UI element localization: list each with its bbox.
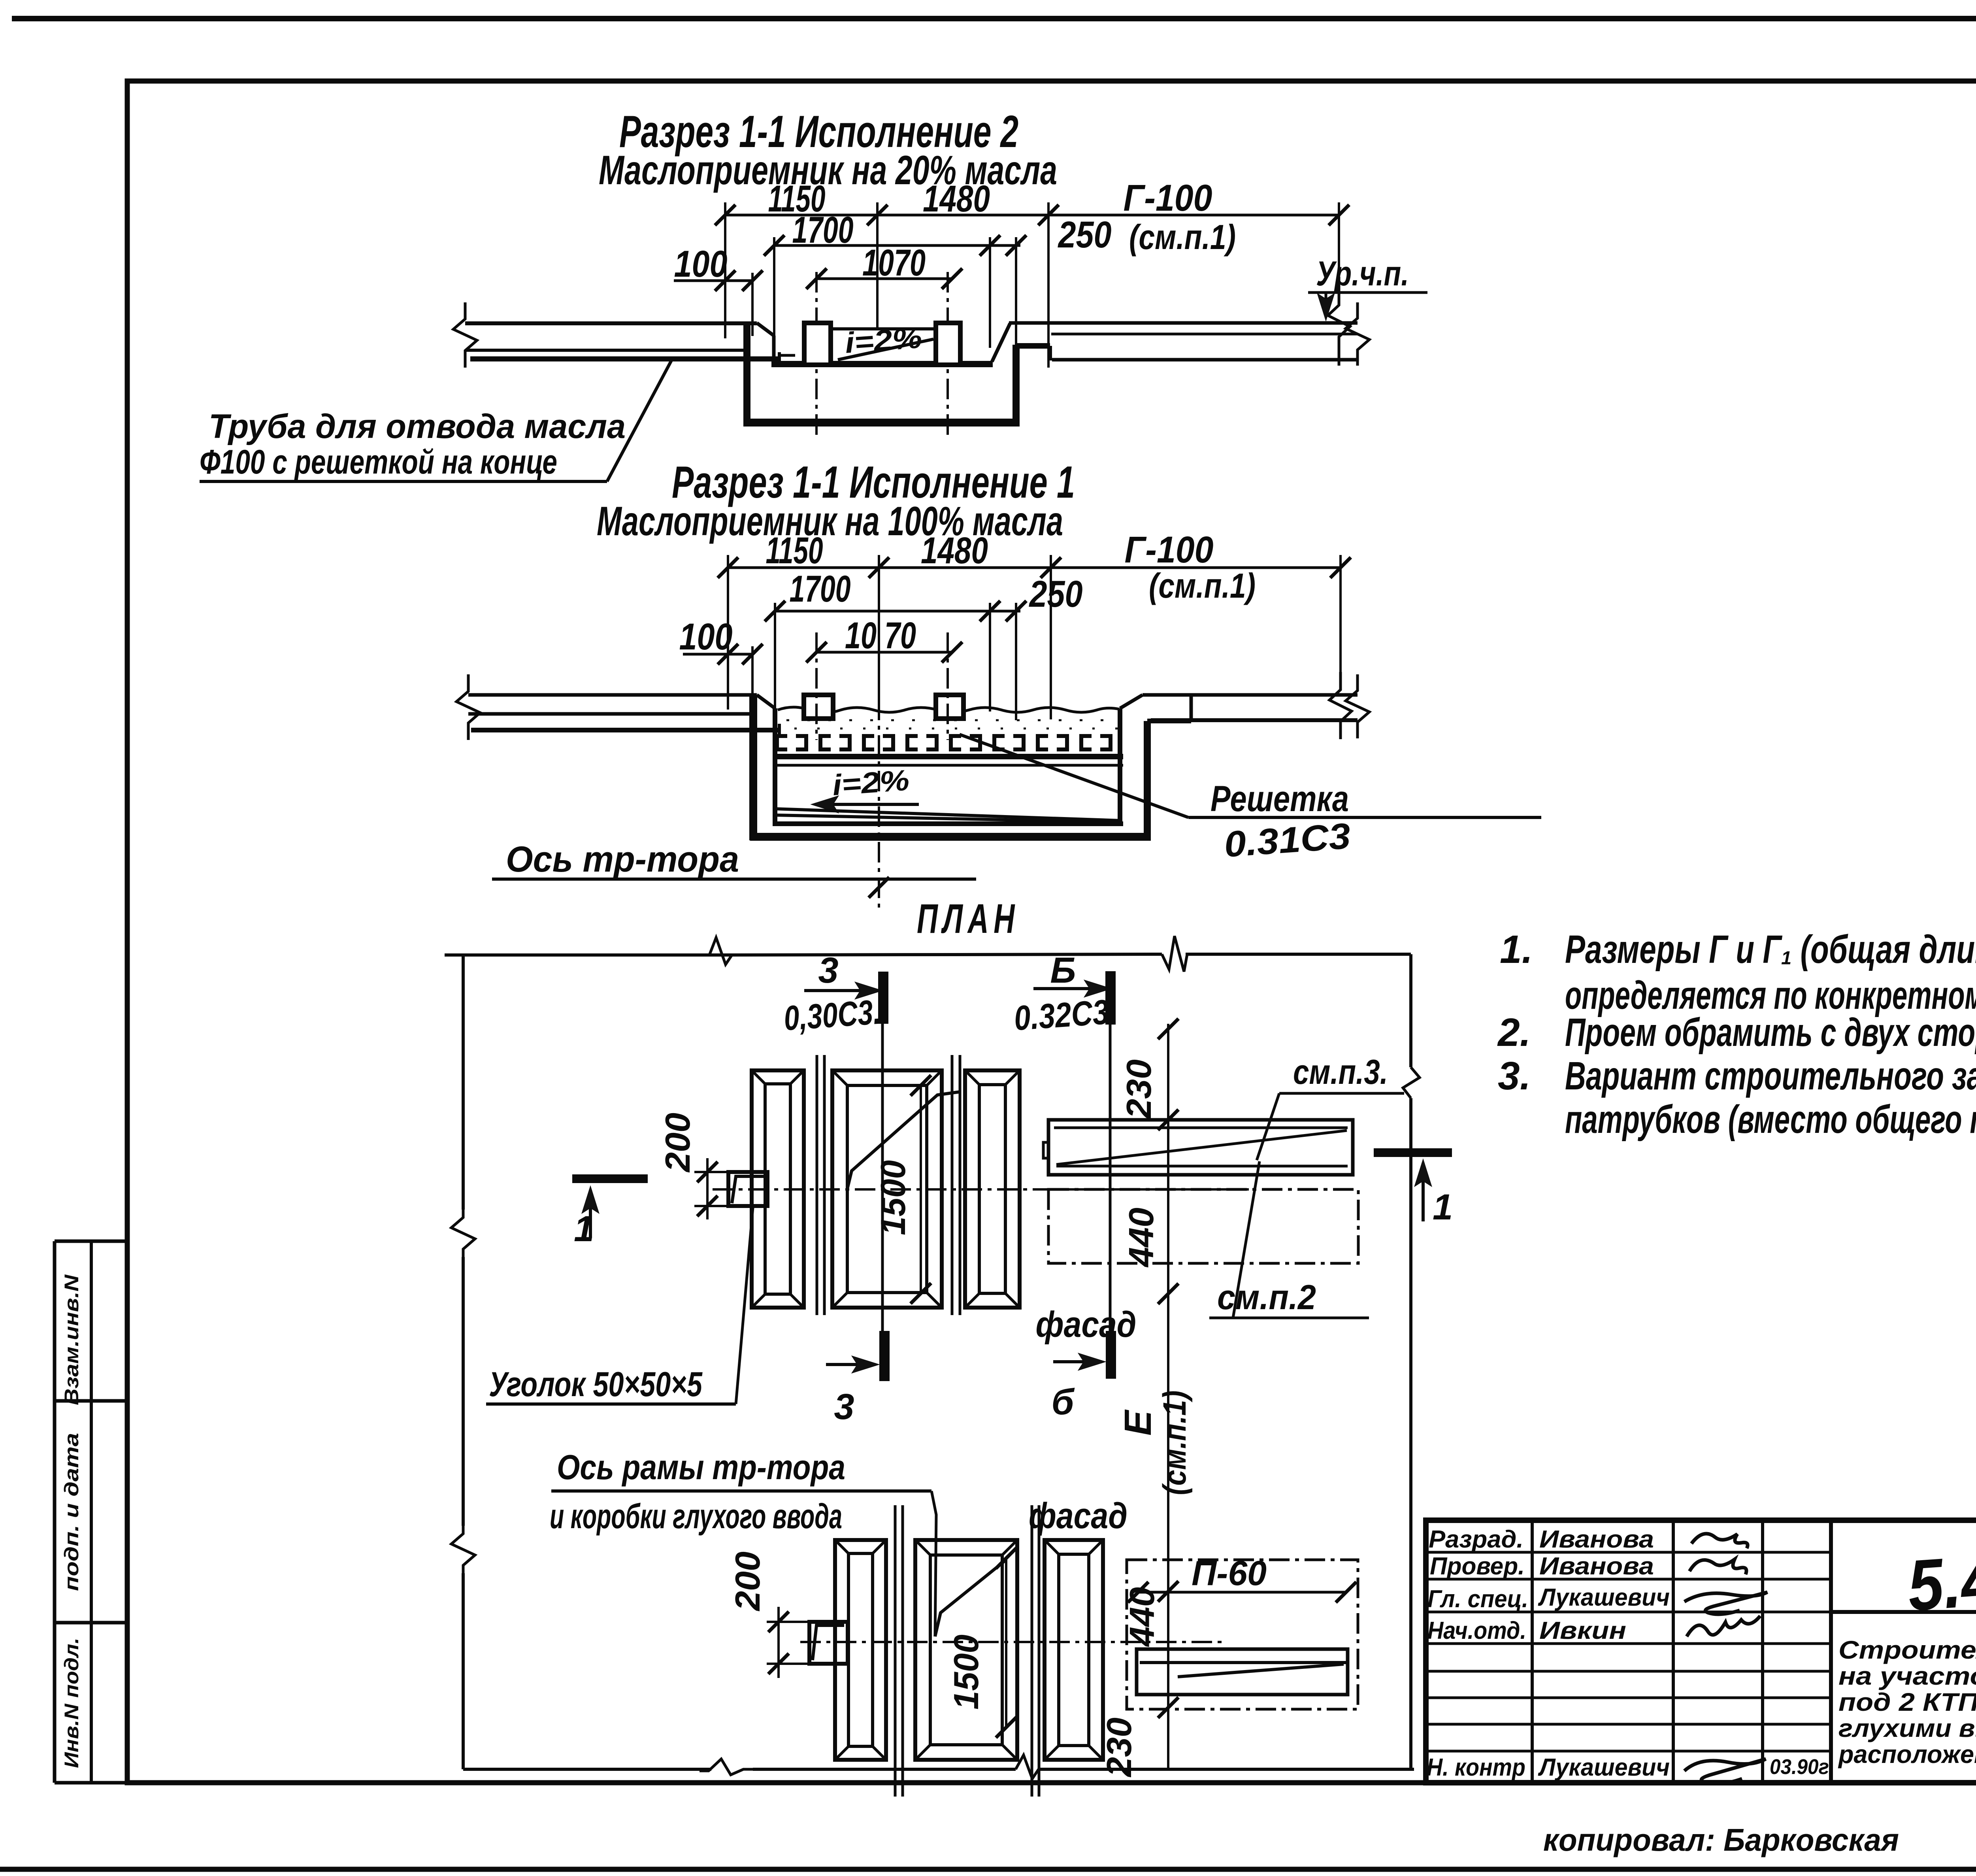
lower plan P-60 inner bbox=[1137, 1649, 1348, 1695]
svg-text:и коробки глухого ввода: и коробки глухого ввода bbox=[550, 1497, 842, 1536]
svg-text:Разрад.: Разрад. bbox=[1429, 1526, 1523, 1553]
section B ext 2571 bbox=[1015, 603, 1017, 720]
section B dim text 100 bbox=[679, 616, 733, 658]
label 0.31C3 bbox=[1223, 816, 1352, 865]
section A left floor slab bbox=[465, 323, 757, 350]
svg-text:Взам.инв.N: Взам.инв.N bbox=[60, 1274, 83, 1405]
section B dim line 100 bbox=[683, 644, 763, 664]
plan sm.p.3 underline bbox=[1279, 1092, 1404, 1095]
section B ext line left bbox=[727, 555, 729, 710]
svg-text:250: 250 bbox=[1058, 214, 1112, 256]
signature razrab bbox=[1691, 1534, 1748, 1548]
doc number 5.407-119.0.28C3 bbox=[1905, 1510, 1976, 1626]
signature n.kontr bbox=[1684, 1759, 1766, 1784]
label Inv.N.podl bbox=[60, 1638, 83, 1768]
section A transformer axis left bbox=[815, 272, 818, 440]
lower plan P-60 dim line bbox=[1128, 1582, 1356, 1602]
title block left grid bbox=[1426, 1520, 1831, 1783]
section B center axis bbox=[869, 664, 889, 909]
section A ext line 2571 bbox=[1015, 237, 1017, 368]
svg-text:1: 1 bbox=[574, 1209, 594, 1249]
svg-text:0,30С3.: 0,30С3. bbox=[782, 992, 882, 1038]
lower plan P-60 dashed rect bbox=[1127, 1560, 1358, 1709]
svg-text:Иванова: Иванова bbox=[1539, 1553, 1654, 1580]
description line 4 bbox=[1838, 1714, 1976, 1742]
section B pipe under floor bbox=[471, 724, 779, 737]
signature gl.spec bbox=[1684, 1592, 1767, 1614]
svg-text:03.90г: 03.90г bbox=[1770, 1755, 1829, 1779]
svg-text:1: 1 bbox=[1433, 1187, 1453, 1227]
section A ext line 2505 bbox=[989, 237, 991, 348]
svg-text:1500: 1500 bbox=[873, 1160, 913, 1235]
titleblock row gl.spec bbox=[1427, 1584, 1670, 1613]
description line 3 bbox=[1838, 1688, 1976, 1716]
svg-text:Н. контр: Н. контр bbox=[1427, 1754, 1525, 1781]
section A label Ur.ch.p. bbox=[1316, 254, 1409, 293]
section B slope lines bbox=[774, 809, 1122, 822]
section B ext line right bbox=[1329, 555, 1352, 739]
lower plan dim 230 bbox=[1099, 1717, 1139, 1778]
svg-text:(см.п.1): (см.п.1) bbox=[1157, 1391, 1193, 1495]
section A pit inner left wall bbox=[757, 323, 774, 364]
plan label 0,30C3 bbox=[782, 992, 882, 1038]
plan top wall break 1 bbox=[709, 938, 732, 964]
svg-text:1700: 1700 bbox=[792, 209, 854, 251]
section A ext line left bbox=[724, 202, 726, 338]
section B pit inner walls bbox=[773, 708, 1123, 826]
section B dim line 1070 bbox=[806, 642, 962, 662]
section A axis dash left bbox=[779, 354, 805, 357]
svg-text:Лукашевич: Лукашевич bbox=[1538, 1754, 1670, 1781]
section A pit outer wall bbox=[743, 324, 1050, 426]
lower plan break lines bbox=[895, 1505, 1039, 1797]
label Ugolok 50x50x5 bbox=[489, 1365, 703, 1404]
section B right floor slab bbox=[1143, 695, 1358, 720]
svg-text:ПЛАН: ПЛАН bbox=[917, 896, 1020, 942]
svg-text:патрубков (вместо общего проем: патрубков (вместо общего проема) см. bbox=[1565, 1097, 1976, 1142]
section B dim text 250 bbox=[1029, 573, 1083, 615]
svg-text:440: 440 bbox=[1122, 1587, 1161, 1647]
section B gravel dots bbox=[786, 720, 1118, 729]
section A dim text 1070 bbox=[862, 242, 926, 284]
svg-text:3.: 3. bbox=[1498, 1054, 1531, 1098]
kopiroval line bbox=[1543, 1822, 1899, 1857]
lower plan center axis bbox=[800, 1641, 1223, 1643]
svg-text:3: 3 bbox=[818, 950, 838, 991]
svg-text:100: 100 bbox=[674, 243, 728, 285]
svg-text:(см.п.1): (см.п.1) bbox=[1129, 217, 1236, 257]
section B pit chamfers bbox=[757, 695, 1143, 708]
svg-text:Ур.ч.п.: Ур.ч.п. bbox=[1316, 254, 1409, 293]
section B transformer axis right bbox=[947, 632, 949, 740]
svg-text:200: 200 bbox=[658, 1113, 697, 1173]
title block outer bbox=[1426, 1520, 1976, 1783]
signature prover bbox=[1689, 1559, 1746, 1574]
section A dim text sm.p.1 bbox=[1129, 217, 1236, 257]
svg-text:Гл. спец.: Гл. спец. bbox=[1427, 1585, 1528, 1613]
section B ext line mid bbox=[878, 555, 880, 700]
section A dim text 100 bbox=[674, 243, 728, 285]
svg-text:230: 230 bbox=[1099, 1717, 1139, 1778]
plan section mark B bottom bbox=[1052, 1331, 1111, 1422]
svg-text:i=2%: i=2% bbox=[844, 321, 923, 359]
plan bottom wall line bbox=[463, 1755, 1414, 1779]
section A dim text 1150 bbox=[768, 178, 826, 220]
section B grate channels bbox=[777, 736, 1111, 749]
lower plan label P-60 bbox=[1192, 1553, 1267, 1593]
svg-text:см.п.3.: см.п.3. bbox=[1293, 1052, 1388, 1091]
section B support block right bbox=[936, 695, 963, 719]
designation cell line bbox=[1831, 1610, 1976, 1614]
label os ramy tr-tora bbox=[550, 1448, 845, 1536]
section A ext line right + break bbox=[1328, 202, 1350, 366]
section A right floor break bbox=[1346, 302, 1369, 366]
svg-text:2.: 2. bbox=[1497, 1010, 1531, 1055]
section A dim text 1480 bbox=[923, 178, 990, 220]
svg-text:подп. и дата: подп. и дата bbox=[60, 1433, 83, 1591]
section A ext line 2653 bbox=[1047, 202, 1050, 368]
svg-text:230: 230 bbox=[1119, 1059, 1158, 1119]
svg-text:Г-100: Г-100 bbox=[1124, 177, 1212, 219]
description line 2 bbox=[1838, 1662, 1976, 1690]
section A oil pipe under floor bbox=[470, 352, 779, 366]
section A dim text 1700 bbox=[792, 209, 854, 251]
svg-text:100: 100 bbox=[679, 616, 733, 658]
section B dim text sm.p.1 bbox=[1149, 566, 1256, 605]
plan sm.p.2 underline bbox=[1209, 1317, 1369, 1319]
plan left wall line bbox=[451, 955, 475, 1769]
plan cabinet left notch bbox=[1043, 1142, 1048, 1158]
os ramy underline bbox=[551, 1489, 931, 1493]
titleblock row n.kontr bbox=[1427, 1754, 1829, 1781]
Ugolok underline bbox=[486, 1402, 736, 1406]
plan sm.p.2 leader bbox=[1233, 1161, 1260, 1318]
svg-text:см.п.2: см.п.2 bbox=[1217, 1278, 1316, 1317]
plan dim 440 upper bbox=[1122, 1208, 1161, 1268]
svg-text:Размеры Г и Г₁ (общая длина ш: Размеры Г и Г₁ (общая длина шкафов РУНН)… bbox=[1565, 927, 1976, 972]
plan dim 230 upper bbox=[1119, 1059, 1158, 1119]
section B ext 1904 bbox=[751, 646, 754, 708]
svg-text:Уголок 50×50×5: Уголок 50×50×5 bbox=[489, 1365, 703, 1404]
section B line under grate bbox=[773, 757, 1123, 765]
svg-text:Ось рамы тр-тора: Ось рамы тр-тора bbox=[557, 1448, 845, 1487]
svg-text:расположение. Левое исполнение: расположение. Левое исполнение bbox=[1838, 1740, 1976, 1768]
svg-text:3: 3 bbox=[834, 1387, 854, 1427]
svg-text:440: 440 bbox=[1122, 1208, 1161, 1268]
scan bottom edge line bbox=[0, 1867, 1976, 1872]
plan opening frame 1 bbox=[752, 1070, 804, 1308]
svg-text:1500: 1500 bbox=[947, 1634, 986, 1710]
pipe callout underline bbox=[200, 480, 607, 483]
plan label 0.32C3 bbox=[1013, 992, 1110, 1038]
svg-text:0.31С3: 0.31С3 bbox=[1223, 816, 1352, 865]
lower plan frame 1 bbox=[835, 1540, 886, 1760]
section B dim text G-100 bbox=[1125, 529, 1214, 571]
svg-text:б: б bbox=[1052, 1382, 1075, 1422]
plan dim 200 bbox=[658, 1113, 731, 1219]
lower plan label fasad bbox=[1029, 1496, 1128, 1536]
section A dim line 1700/250 bbox=[764, 235, 1026, 256]
svg-text:на участок перекрытия: на участок перекрытия bbox=[1838, 1662, 1976, 1690]
svg-text:Лукашевич: Лукашевич bbox=[1538, 1584, 1670, 1611]
svg-text:1480: 1480 bbox=[921, 530, 988, 572]
section A dim line 1150/1480/G-100 bbox=[715, 205, 1349, 225]
plan frame2 inner diagonal bbox=[847, 1092, 960, 1191]
description line 1 bbox=[1838, 1636, 1976, 1664]
svg-text:1150: 1150 bbox=[766, 530, 823, 572]
section B left floor break bbox=[456, 674, 480, 740]
svg-text:1480: 1480 bbox=[923, 178, 990, 220]
svg-text:фасад: фасад bbox=[1029, 1496, 1128, 1536]
note 1 line 2 bbox=[1565, 973, 1976, 1017]
lower plan dim 200 bbox=[728, 1551, 809, 1678]
lower plan frame 2 bbox=[915, 1540, 1017, 1760]
section B dim text 1480 bbox=[921, 530, 988, 572]
label Reshetka bbox=[1210, 779, 1349, 819]
label Os tr-tora bbox=[506, 839, 739, 879]
section A ext line 1959 bbox=[773, 237, 775, 345]
plan angle detail box bbox=[728, 1172, 767, 1206]
svg-text:Проем обрамить с двух сторон у: Проем обрамить с двух сторон уголками 50… bbox=[1565, 1010, 1976, 1055]
svg-text:Маслоприемник на 100% масла: Маслоприемник на 100% масла bbox=[597, 498, 1063, 544]
svg-text:Решетка: Решетка bbox=[1210, 779, 1349, 819]
section B dim line 1700/250 bbox=[765, 601, 1026, 621]
section A Ur.ch.p. underline bbox=[1308, 291, 1427, 294]
scan top edge line bbox=[12, 16, 1976, 21]
Reshetka leader bbox=[960, 734, 1188, 817]
svg-text:1.: 1. bbox=[1500, 927, 1533, 972]
svg-text:(см.п.1): (см.п.1) bbox=[1149, 566, 1256, 605]
svg-text:Иванова: Иванова bbox=[1539, 1526, 1654, 1553]
label podp.i.data bbox=[60, 1433, 83, 1591]
note 3 line 2 bbox=[1565, 1097, 1976, 1142]
plan top wall line bbox=[445, 954, 1411, 955]
section B ext 1961 bbox=[774, 603, 776, 712]
lower plan dim 440 bbox=[1122, 1587, 1161, 1647]
note 1 line 1 bbox=[1500, 927, 1976, 972]
svg-text:Инв.N подл.: Инв.N подл. bbox=[60, 1638, 83, 1768]
plan section mark B top bbox=[1033, 950, 1112, 1331]
plan opening frame 2 bbox=[832, 1070, 942, 1308]
section A pit inner floor bbox=[771, 361, 993, 367]
section A ext line 1904 bbox=[751, 273, 754, 336]
plan E dim line bbox=[1158, 1019, 1178, 1770]
section A dim text 250 bbox=[1058, 214, 1112, 256]
section B pit outer wall bbox=[750, 696, 1191, 840]
Reshetka underline bbox=[1188, 816, 1541, 819]
svg-text:Провер.: Провер. bbox=[1430, 1553, 1525, 1580]
titleblock row nach.otd bbox=[1427, 1617, 1626, 1644]
label Vzam.inv.N bbox=[60, 1274, 83, 1405]
pipe callout leader bbox=[607, 360, 672, 481]
section A ext line mid bbox=[876, 202, 879, 327]
section B title line 2 bbox=[597, 498, 1063, 544]
section B dim text 1070 bbox=[845, 615, 916, 657]
left margin box column bbox=[55, 1241, 127, 1783]
plan label fasad upper bbox=[1036, 1304, 1137, 1345]
section A title line 1 bbox=[619, 107, 1018, 157]
lower plan inlet box bbox=[809, 1622, 848, 1664]
plan horizontal center axis bbox=[713, 1188, 1249, 1191]
section B dim text 1150 bbox=[766, 530, 823, 572]
plan dim 1500 bbox=[873, 1075, 931, 1304]
svg-text:Нач.отд.: Нач.отд. bbox=[1427, 1617, 1526, 1644]
section A dim line 100 bbox=[674, 270, 763, 291]
plan label sm.p.2 bbox=[1217, 1278, 1316, 1317]
os ramy leader bbox=[931, 1491, 936, 1636]
svg-text:10 70: 10 70 bbox=[845, 615, 916, 657]
plan break lines between frames bbox=[817, 1055, 960, 1315]
plan title PLAN bbox=[917, 896, 1020, 942]
section A support block right bbox=[936, 323, 960, 365]
lower plan frame 3 bbox=[1045, 1540, 1103, 1760]
section A pit inner right chamfer bbox=[992, 323, 1010, 362]
section B left floor slab bbox=[468, 695, 757, 714]
svg-text:Г-100: Г-100 bbox=[1125, 529, 1214, 571]
note 3 line 1 bbox=[1498, 1054, 1976, 1098]
plan opening frame 3 bbox=[965, 1070, 1020, 1308]
section A Ur.ch.p. arrow bbox=[1317, 293, 1335, 321]
plan top wall break 2 bbox=[1162, 936, 1187, 972]
description line 5 bbox=[1838, 1740, 1976, 1768]
signature nach.otd bbox=[1687, 1616, 1760, 1636]
svg-text:под 2 КТП 1600 кВ ·А с: под 2 КТП 1600 кВ ·А с bbox=[1838, 1688, 1976, 1716]
pipe callout text bbox=[200, 408, 626, 481]
svg-text:250: 250 bbox=[1029, 573, 1083, 615]
plan right vertical line bbox=[1403, 954, 1420, 1770]
section A title line 2 bbox=[599, 147, 1057, 193]
Os tr-tora underline bbox=[492, 878, 976, 881]
section A dim text G-100 bbox=[1124, 177, 1212, 219]
section B label i=2% bbox=[831, 764, 910, 802]
titleblock row razrab bbox=[1429, 1526, 1654, 1553]
section B dim text 1700 bbox=[790, 568, 851, 610]
plan sm.p.3 leader bbox=[1257, 1093, 1279, 1160]
plan label sm.p.1 rotated bbox=[1157, 1391, 1193, 1495]
svg-text:0.32С3: 0.32С3 bbox=[1013, 992, 1110, 1038]
plan section mark 3 top bbox=[804, 950, 883, 1331]
svg-text:1700: 1700 bbox=[790, 568, 851, 610]
plan section mark 1 right bbox=[1374, 1153, 1453, 1227]
plan cabinet row RUNN bbox=[1048, 1120, 1353, 1175]
plan dashed outline smp2 bbox=[1048, 1189, 1358, 1263]
section A i=2% slope bbox=[838, 339, 933, 360]
section B oil surface wavy line bbox=[778, 707, 1119, 713]
lower plan dim 1500 bbox=[947, 1548, 1016, 1738]
svg-text:1070: 1070 bbox=[862, 242, 926, 284]
svg-text:Строительное задание: Строительное задание bbox=[1838, 1636, 1976, 1664]
section B title line 1 bbox=[672, 457, 1075, 508]
svg-text:5.407-119.0.28С3: 5.407-119.0.28С3 bbox=[1905, 1510, 1976, 1626]
section A transformer axis right bbox=[947, 272, 949, 440]
section A left floor break bbox=[453, 302, 477, 368]
Ugolok leader bbox=[736, 1208, 753, 1404]
section A right floor slab bbox=[1009, 323, 1358, 360]
svg-text:Вариант строительного задания: Вариант строительного задания на установ… bbox=[1565, 1054, 1976, 1098]
svg-text:i=2%: i=2% bbox=[831, 764, 910, 802]
note 2 bbox=[1497, 1010, 1976, 1055]
plan section mark 3 bottom bbox=[826, 1331, 884, 1427]
section B transformer axis left bbox=[815, 632, 818, 740]
lower plan frame2 diagonal bbox=[935, 1561, 1004, 1636]
titleblock row prover bbox=[1430, 1553, 1654, 1580]
svg-text:Ивкин: Ивкин bbox=[1539, 1617, 1626, 1644]
plan bottom wall end tick bbox=[1409, 1739, 1412, 1770]
section A support block left bbox=[804, 323, 831, 365]
plan label sm.p.3 bbox=[1293, 1052, 1388, 1091]
svg-text:Б: Б bbox=[1050, 950, 1076, 991]
section B dim line 1150/1480/G-100 bbox=[718, 557, 1351, 578]
plan label E bbox=[1117, 1409, 1159, 1436]
section B support block left bbox=[804, 695, 833, 719]
plan section mark 1 left bbox=[572, 1179, 648, 1249]
section A i=2% wedge top bbox=[831, 327, 936, 330]
svg-text:П-60: П-60 bbox=[1192, 1553, 1267, 1593]
section A dim line 1070 bbox=[806, 268, 962, 289]
section A label i=2% bbox=[844, 321, 923, 359]
svg-text:Ось тр-тора: Ось тр-тора bbox=[506, 839, 739, 879]
section B ext 2505 bbox=[989, 603, 991, 712]
section B right floor break bbox=[1346, 674, 1369, 738]
svg-text:Ф100 с решеткой на конце: Ф100 с решеткой на конце bbox=[200, 443, 557, 481]
section B ext line 2659 bbox=[1050, 555, 1052, 719]
svg-text:Труба для отвода масла: Труба для отвода масла bbox=[209, 408, 626, 445]
svg-text:фасад: фасад bbox=[1036, 1304, 1137, 1345]
svg-text:Е: Е bbox=[1117, 1409, 1159, 1436]
svg-text:200: 200 bbox=[728, 1551, 767, 1612]
svg-text:копировал: Барковская: копировал: Барковская bbox=[1543, 1822, 1899, 1857]
section B slope arrow bbox=[811, 796, 919, 813]
svg-text:глухими вводами. Двухрядное: глухими вводами. Двухрядное bbox=[1838, 1714, 1976, 1742]
